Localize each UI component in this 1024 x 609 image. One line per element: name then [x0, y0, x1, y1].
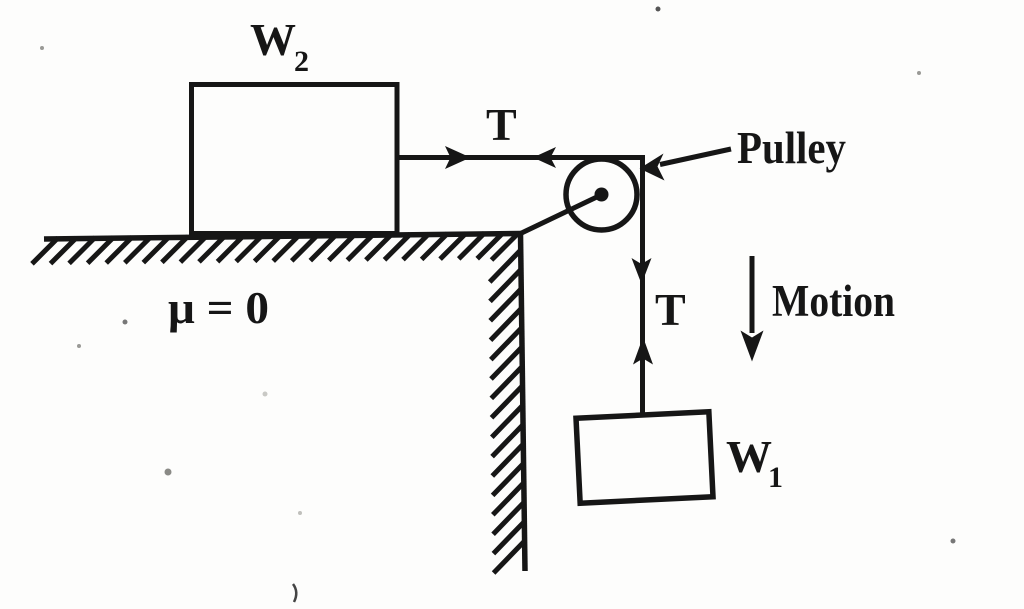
scan specks — [40, 7, 956, 544]
tension arrowhead right — [445, 146, 471, 169]
svg-text:Motion: Motion — [772, 276, 895, 326]
scan mark bottom — [293, 584, 296, 602]
svg-text:W: W — [250, 14, 296, 65]
wall hatching — [490, 250, 525, 573]
wall — [521, 234, 526, 572]
tension arrowhead down — [632, 258, 652, 284]
pulley arm — [521, 195, 602, 234]
svg-text:W: W — [726, 431, 772, 482]
table surface — [44, 234, 521, 240]
svg-text:2: 2 — [294, 45, 309, 78]
tension arrowhead left — [533, 147, 556, 168]
pulley pointer line — [660, 149, 731, 165]
block W2 — [192, 85, 398, 234]
motion arrow — [750, 256, 755, 333]
block W1 — [576, 412, 713, 503]
rope — [397, 158, 643, 417]
table hatching — [32, 233, 518, 264]
tension arrowhead up — [633, 337, 653, 365]
pulley U — [566, 159, 637, 230]
svg-text:T: T — [486, 99, 517, 150]
svg-text:1: 1 — [768, 461, 783, 494]
svg-text:Pulley: Pulley — [737, 123, 846, 173]
svg-text:μ = 0: μ = 0 — [168, 282, 269, 333]
pulley pointer arrowhead — [640, 154, 665, 181]
svg-text:T: T — [655, 284, 686, 335]
pulley axle dot — [595, 188, 609, 202]
